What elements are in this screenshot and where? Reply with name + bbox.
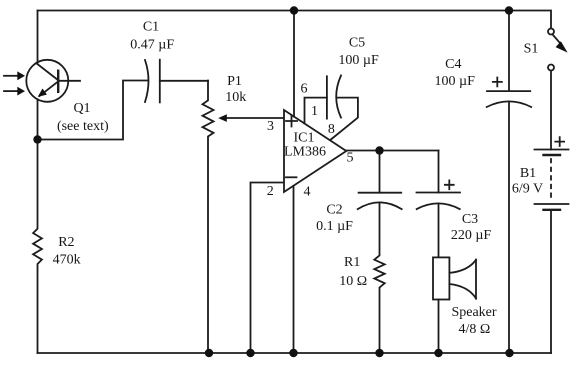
svg-text:S1: S1: [524, 42, 539, 57]
svg-text:P1: P1: [227, 74, 242, 89]
svg-text:10k: 10k: [225, 90, 246, 105]
svg-text:220 µF: 220 µF: [451, 228, 492, 243]
svg-text:100 µF: 100 µF: [338, 53, 379, 68]
svg-text:0.1 µF: 0.1 µF: [316, 219, 353, 234]
svg-text:C1: C1: [143, 20, 159, 35]
svg-text:470k: 470k: [53, 253, 81, 268]
svg-text:6: 6: [301, 82, 308, 97]
svg-text:5: 5: [347, 151, 354, 166]
svg-text:Speaker: Speaker: [451, 305, 496, 320]
svg-text:4/8 Ω: 4/8 Ω: [459, 322, 491, 337]
svg-text:6/9 V: 6/9 V: [512, 182, 543, 197]
svg-text:4: 4: [304, 185, 311, 200]
svg-text:C5: C5: [349, 35, 365, 50]
svg-text:100 µF: 100 µF: [435, 74, 476, 89]
svg-text:R2: R2: [58, 235, 74, 250]
svg-text:C3: C3: [462, 212, 478, 227]
svg-text:R1: R1: [344, 255, 360, 270]
svg-text:IC1: IC1: [294, 131, 315, 146]
svg-text:(see text): (see text): [57, 119, 109, 134]
svg-text:Q1: Q1: [73, 101, 90, 116]
svg-text:10 Ω: 10 Ω: [339, 274, 367, 289]
svg-text:0.47 µF: 0.47 µF: [130, 37, 174, 52]
svg-text:B1: B1: [520, 166, 536, 181]
svg-text:2: 2: [267, 184, 274, 199]
svg-text:C2: C2: [326, 203, 342, 218]
svg-text:3: 3: [267, 119, 274, 134]
svg-text:8: 8: [328, 122, 335, 137]
svg-text:C4: C4: [445, 57, 461, 72]
svg-text:1: 1: [311, 104, 318, 119]
svg-text:LM386: LM386: [284, 144, 326, 159]
